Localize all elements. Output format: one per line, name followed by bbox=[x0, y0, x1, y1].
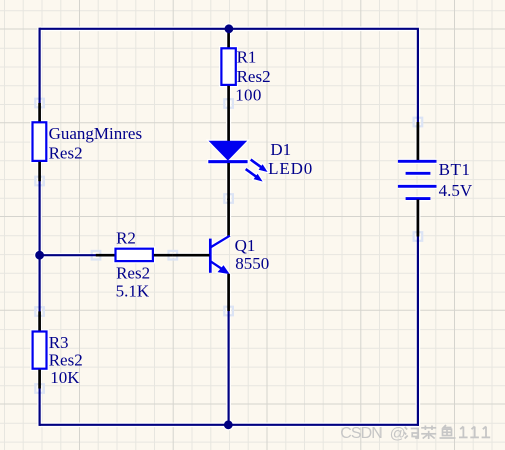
wire left rail lower segment bbox=[38, 255, 40, 311]
photoresistor GuangMinres body bbox=[33, 122, 47, 161]
svg-text:Q1: Q1 bbox=[235, 236, 256, 255]
svg-text:GuangMinres: GuangMinres bbox=[49, 124, 142, 143]
svg-text:8550: 8550 bbox=[235, 254, 269, 273]
photoresistor GuangMinres pin 2 bbox=[38, 162, 41, 181]
svg-text:4.5V: 4.5V bbox=[439, 181, 473, 200]
resistor R3 pin 2 bbox=[38, 370, 41, 389]
wire bottom rail bbox=[40, 424, 419, 426]
battery BT1 pin 1 positive bbox=[417, 122, 420, 161]
LED D1 cathode bar bbox=[208, 160, 247, 163]
wire emitter to bottom rail bbox=[228, 311, 230, 425]
resistor R1 body bbox=[221, 48, 235, 85]
transistor Q1 base bar bbox=[209, 239, 212, 273]
svg-text:100: 100 bbox=[235, 85, 261, 104]
transistor Q1 base pin bbox=[173, 254, 210, 257]
svg-text:R1: R1 bbox=[237, 47, 257, 66]
resistor R2 pin 1 bbox=[96, 254, 115, 257]
svg-text:Res2: Res2 bbox=[49, 350, 83, 369]
watermark CJK glyph Yu bbox=[440, 425, 456, 438]
wire left rail bottom segment bbox=[38, 388, 40, 426]
battery BT1 plate short lower bbox=[406, 197, 431, 200]
resistor R3 body bbox=[33, 332, 47, 369]
resistor R2 body bbox=[116, 249, 153, 261]
wire right rail upper segment bbox=[417, 29, 419, 122]
svg-text:Res2: Res2 bbox=[237, 67, 271, 86]
LED D1 emission arrow 1 bbox=[251, 160, 268, 172]
LED D1 pin 2 cathode bbox=[227, 163, 230, 200]
node junction bottom emitter bbox=[224, 420, 233, 429]
svg-text:10K: 10K bbox=[50, 368, 80, 387]
svg-text:Res2: Res2 bbox=[116, 263, 150, 282]
resistor R3 pin 1 bbox=[38, 311, 41, 330]
watermark 111 bbox=[459, 426, 468, 437]
battery BT1 pin 2 negative bbox=[417, 200, 420, 237]
svg-text:5.1K: 5.1K bbox=[116, 281, 150, 300]
LED D1 triangle bbox=[209, 141, 248, 161]
photoresistor GuangMinres pin 1 bbox=[38, 103, 41, 122]
watermark CJK glyph Cai bbox=[421, 426, 436, 440]
battery BT1 plate long top bbox=[398, 160, 437, 163]
transistor Q1 collector stroke bbox=[211, 236, 230, 247]
wire right rail lower segment bbox=[417, 236, 419, 426]
svg-text:CSDN: CSDN bbox=[340, 425, 383, 442]
resistor R1 pin 2 bbox=[227, 86, 230, 104]
wire top rail bbox=[40, 28, 419, 30]
svg-text:R3: R3 bbox=[49, 333, 69, 352]
svg-text:@: @ bbox=[390, 425, 406, 442]
LED D1 pin 1 anode bbox=[227, 104, 230, 141]
wire-pin hotspot markers bbox=[35, 99, 44, 108]
svg-text:R2: R2 bbox=[116, 228, 136, 247]
wire left rail mid segment bbox=[38, 181, 40, 255]
LED D1 emission arrow 2 bbox=[246, 169, 263, 181]
node junction left divider tap bbox=[35, 251, 44, 260]
svg-text:BT1: BT1 bbox=[439, 160, 470, 179]
wire left rail upper segment bbox=[38, 28, 40, 103]
transistor Q1 emitter arrowhead bbox=[218, 265, 230, 274]
watermark CJK glyph Pao bbox=[404, 427, 419, 439]
svg-text:LED0: LED0 bbox=[268, 159, 312, 178]
svg-text:D1: D1 bbox=[270, 140, 291, 159]
svg-text:Res2: Res2 bbox=[49, 143, 83, 162]
resistor R1 pin 1 bbox=[227, 29, 230, 48]
transistor Q1 collector pin bbox=[227, 199, 230, 237]
node junction top bbox=[225, 24, 234, 33]
battery BT1 plate short upper bbox=[406, 172, 431, 175]
transistor Q1 emitter stroke bbox=[211, 262, 224, 270]
resistor R2 pin 2 bbox=[154, 254, 173, 257]
wire base row junction to R2 bbox=[40, 254, 96, 256]
white halo casing under conductors bbox=[40, 26, 419, 31]
battery BT1 plate long bottom bbox=[398, 185, 437, 188]
transistor Q1 emitter pin bbox=[227, 274, 230, 311]
